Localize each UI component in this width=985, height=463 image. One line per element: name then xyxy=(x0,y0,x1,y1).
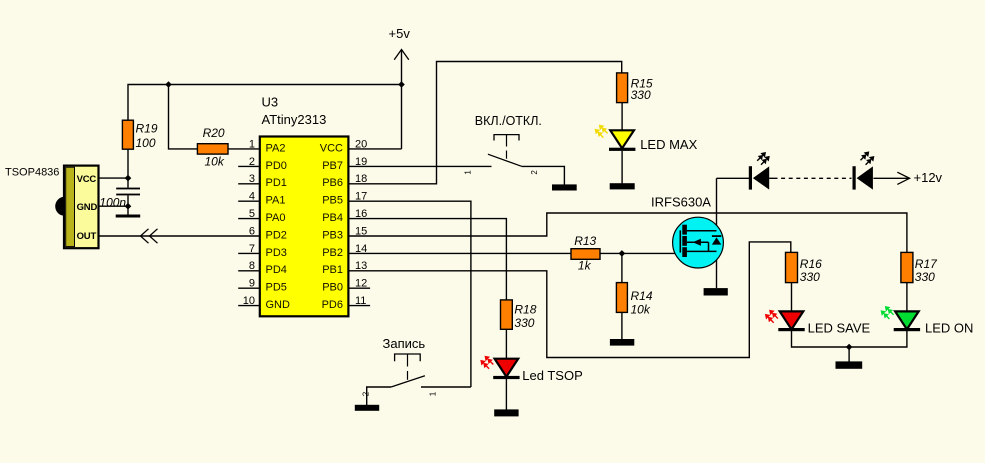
svg-text:R18: R18 xyxy=(514,302,536,316)
pin 10 stub xyxy=(238,305,260,307)
resistor R16 xyxy=(786,252,798,282)
emission arrows LED ON xyxy=(881,306,894,319)
Led TSOP (red) D2 xyxy=(480,356,582,383)
pin 9 stub xyxy=(238,287,260,289)
svg-text:PD3: PD3 xyxy=(266,247,287,259)
svg-text:1: 1 xyxy=(429,391,438,396)
wire R18 to Led TSOP xyxy=(505,329,507,358)
IR LED D5 xyxy=(749,152,770,190)
svg-text:+5v: +5v xyxy=(389,26,411,41)
ground (R14) xyxy=(610,339,634,346)
svg-text:Запись: Запись xyxy=(383,336,426,351)
svg-text:8: 8 xyxy=(249,260,255,272)
pin 8 stub xyxy=(238,270,260,272)
svg-text:18: 18 xyxy=(355,173,367,185)
svg-text:ВКЛ./ОТКЛ.: ВКЛ./ОТКЛ. xyxy=(475,114,542,128)
svg-text:R19: R19 xyxy=(136,122,158,136)
svg-text:PB5: PB5 xyxy=(322,195,343,207)
svg-text:PD5: PD5 xyxy=(266,282,287,294)
emission arrows LED MAX xyxy=(595,125,608,138)
svg-text:PB1: PB1 xyxy=(322,264,343,276)
wire R19 bottom to VCC node xyxy=(127,149,129,188)
svg-text:PD1: PD1 xyxy=(266,177,287,189)
svg-text:TSOP4836: TSOP4836 xyxy=(5,167,59,179)
svg-text:19: 19 xyxy=(355,156,367,168)
wire TSOP OUT to pin 6 xyxy=(99,235,260,237)
pin 2 stub xyxy=(238,165,260,167)
ground (LED SAVE / LED ON) xyxy=(836,361,863,368)
svg-text:10: 10 xyxy=(243,295,255,307)
wire LED SAVE cathode to common xyxy=(792,331,907,347)
svg-text:R13: R13 xyxy=(574,234,596,248)
ground (switch S2) xyxy=(355,405,379,411)
emission arrows IR LED D6 xyxy=(861,151,875,164)
svg-text:LED ON: LED ON xyxy=(925,320,973,335)
pin 7 stub xyxy=(238,252,260,254)
svg-text:R20: R20 xyxy=(203,126,225,140)
wire pin 18 to R15 xyxy=(348,62,621,184)
svg-text:LED MAX: LED MAX xyxy=(640,137,697,152)
wire MOSFET drain xyxy=(716,178,718,235)
svg-text:LED SAVE: LED SAVE xyxy=(808,320,871,335)
junction node at R20 tap xyxy=(165,81,172,88)
svg-text:PB0: PB0 xyxy=(322,282,343,294)
resistor R20 xyxy=(197,144,228,154)
emission arrows LED SAVE xyxy=(765,310,778,323)
resistor R18 xyxy=(501,300,513,329)
svg-text:Led TSOP: Led TSOP xyxy=(522,368,582,383)
svg-text:1k: 1k xyxy=(578,258,592,272)
svg-text:IRFS630A: IRFS630A xyxy=(651,194,711,209)
svg-text:2: 2 xyxy=(362,391,371,396)
wire R20 to pin 1 xyxy=(228,148,260,150)
svg-text:2: 2 xyxy=(530,170,539,175)
svg-text:PB4: PB4 xyxy=(322,212,343,224)
svg-text:330: 330 xyxy=(631,88,651,102)
LED SAVE (red) D3 xyxy=(765,310,871,336)
svg-text:100: 100 xyxy=(136,136,156,150)
svg-text:330: 330 xyxy=(514,316,534,330)
wire IR LED1 to dashes xyxy=(769,177,773,179)
emission arrows IR LED D5 xyxy=(757,152,770,165)
svg-text:12: 12 xyxy=(355,278,367,290)
wire R15 to LED MAX xyxy=(621,103,623,131)
resistor R17 xyxy=(901,252,913,282)
ground (LED MAX) xyxy=(610,183,635,189)
svg-text:ATtiny2313: ATtiny2313 xyxy=(262,112,327,127)
wire capacitor bottom to ground xyxy=(127,195,129,215)
wire TSOP VCC xyxy=(99,177,129,179)
svg-text:PD0: PD0 xyxy=(266,160,287,172)
ground (MOSFET source) xyxy=(704,288,728,295)
svg-text:13: 13 xyxy=(355,260,367,272)
wire pin 16 to R18 xyxy=(348,219,506,300)
capacitor C1 100n xyxy=(116,188,140,190)
svg-text:OUT: OUT xyxy=(77,231,97,242)
wire pin 20 to +5v xyxy=(348,148,401,150)
ground (Led TSOP) xyxy=(494,409,518,416)
junction node GND-capacitor xyxy=(125,203,132,210)
IR LED D6 xyxy=(853,151,875,189)
wire R17 to LED ON xyxy=(906,283,908,312)
TSOP4836 IR receiver U1 xyxy=(55,166,98,249)
+5v arrow head xyxy=(394,50,409,60)
ground (switch S1) xyxy=(552,184,577,190)
svg-text:PD6: PD6 xyxy=(322,299,343,311)
svg-text:10k: 10k xyxy=(631,302,651,316)
pin 12 stub xyxy=(348,287,370,289)
resistor R19 xyxy=(122,120,133,149)
svg-text:+12v: +12v xyxy=(914,170,943,185)
wire LED MAX to ground xyxy=(621,151,623,184)
resistor R14 xyxy=(616,283,627,313)
pin 3 stub xyxy=(238,183,260,185)
transistor Q1 IRFS630A xyxy=(651,194,723,268)
svg-text:100n: 100n xyxy=(99,196,126,210)
resistor R13 xyxy=(571,249,600,260)
wire pin 19 to switch S1 xyxy=(348,165,491,167)
svg-text:11: 11 xyxy=(355,295,366,307)
wire top rail from R19 to +5v xyxy=(128,85,402,121)
wire pin 14 to R13 xyxy=(348,252,571,254)
svg-text:PA1: PA1 xyxy=(266,195,286,207)
wire TSOP GND xyxy=(99,205,129,207)
wire common to ground xyxy=(848,347,850,362)
wire switch S2 left to ground xyxy=(367,387,391,405)
svg-text:PD4: PD4 xyxy=(266,264,287,276)
resistor R15 xyxy=(617,73,628,103)
LED ON (green) D4 xyxy=(881,306,974,335)
op-amp / IC U3 ATtiny2313 xyxy=(243,95,368,317)
svg-text:PA0: PA0 xyxy=(266,212,286,224)
wire pin 15 to R17 xyxy=(348,213,907,252)
svg-text:1: 1 xyxy=(464,170,473,175)
svg-text:10k: 10k xyxy=(205,154,225,168)
wire dashed link xyxy=(774,177,852,179)
svg-text:14: 14 xyxy=(355,243,367,255)
svg-text:330: 330 xyxy=(800,270,820,284)
svg-text:4: 4 xyxy=(249,191,255,203)
svg-text:PD2: PD2 xyxy=(266,229,287,241)
wire pin 17 to switch S2 xyxy=(348,201,471,387)
svg-text:6: 6 xyxy=(249,225,255,237)
wire switch S1 to ground xyxy=(522,166,565,184)
wire R14 junction xyxy=(621,253,623,282)
switch S1 ВКЛ./ОТКЛ. xyxy=(464,114,542,174)
svg-text:PB6: PB6 xyxy=(322,177,343,189)
junction node LED common ground xyxy=(846,344,853,351)
wire IR LED2 to +12v xyxy=(873,177,909,179)
wire R13 to gate xyxy=(600,252,681,254)
svg-text:GND: GND xyxy=(266,299,291,311)
wire switch S2 right xyxy=(421,386,471,388)
svg-text:U3: U3 xyxy=(262,95,279,110)
svg-text:PB2: PB2 xyxy=(322,247,343,259)
chevron marker on OUT wire xyxy=(141,229,158,243)
LED MAX (yellow) D1 xyxy=(595,125,698,152)
pin 11 stub xyxy=(348,305,370,307)
svg-text:15: 15 xyxy=(355,225,367,237)
junction node at +5v xyxy=(398,81,405,88)
svg-text:5: 5 xyxy=(249,208,255,220)
junction node R13-R14-gate xyxy=(619,250,626,257)
+12v arrow head xyxy=(897,172,909,184)
pin 4 stub xyxy=(238,200,260,202)
wire MOSFET source to ground xyxy=(716,244,718,288)
svg-text:R14: R14 xyxy=(631,289,653,303)
wire Led TSOP to ground xyxy=(505,379,507,410)
svg-text:1: 1 xyxy=(249,138,255,150)
svg-text:17: 17 xyxy=(355,191,367,203)
svg-text:GND: GND xyxy=(77,202,98,213)
svg-text:PA2: PA2 xyxy=(266,142,286,154)
svg-text:16: 16 xyxy=(355,208,367,220)
svg-text:VCC: VCC xyxy=(320,142,343,154)
svg-text:VCC: VCC xyxy=(77,174,97,185)
wire R16 to LED SAVE xyxy=(791,283,793,312)
junction node VCC-capacitor xyxy=(125,175,132,182)
svg-text:330: 330 xyxy=(915,270,935,284)
wire drain to IR LED1 xyxy=(717,177,750,179)
svg-text:9: 9 xyxy=(249,278,255,290)
svg-text:20: 20 xyxy=(355,138,367,150)
svg-text:PB3: PB3 xyxy=(322,229,343,241)
emission arrows Led TSOP xyxy=(480,356,493,369)
wire R14 to ground xyxy=(621,312,623,339)
svg-text:2: 2 xyxy=(249,156,255,168)
wire +5v vertical xyxy=(401,50,403,149)
pin 5 stub xyxy=(238,218,260,220)
switch S2 Запись xyxy=(362,336,438,396)
svg-text:7: 7 xyxy=(249,243,255,255)
wire pin 13 to R16 xyxy=(348,242,790,358)
svg-text:3: 3 xyxy=(249,173,255,185)
wire R20 riser xyxy=(169,85,198,149)
ground (capacitor/TSOP) xyxy=(116,215,141,218)
svg-text:PB7: PB7 xyxy=(322,160,343,172)
